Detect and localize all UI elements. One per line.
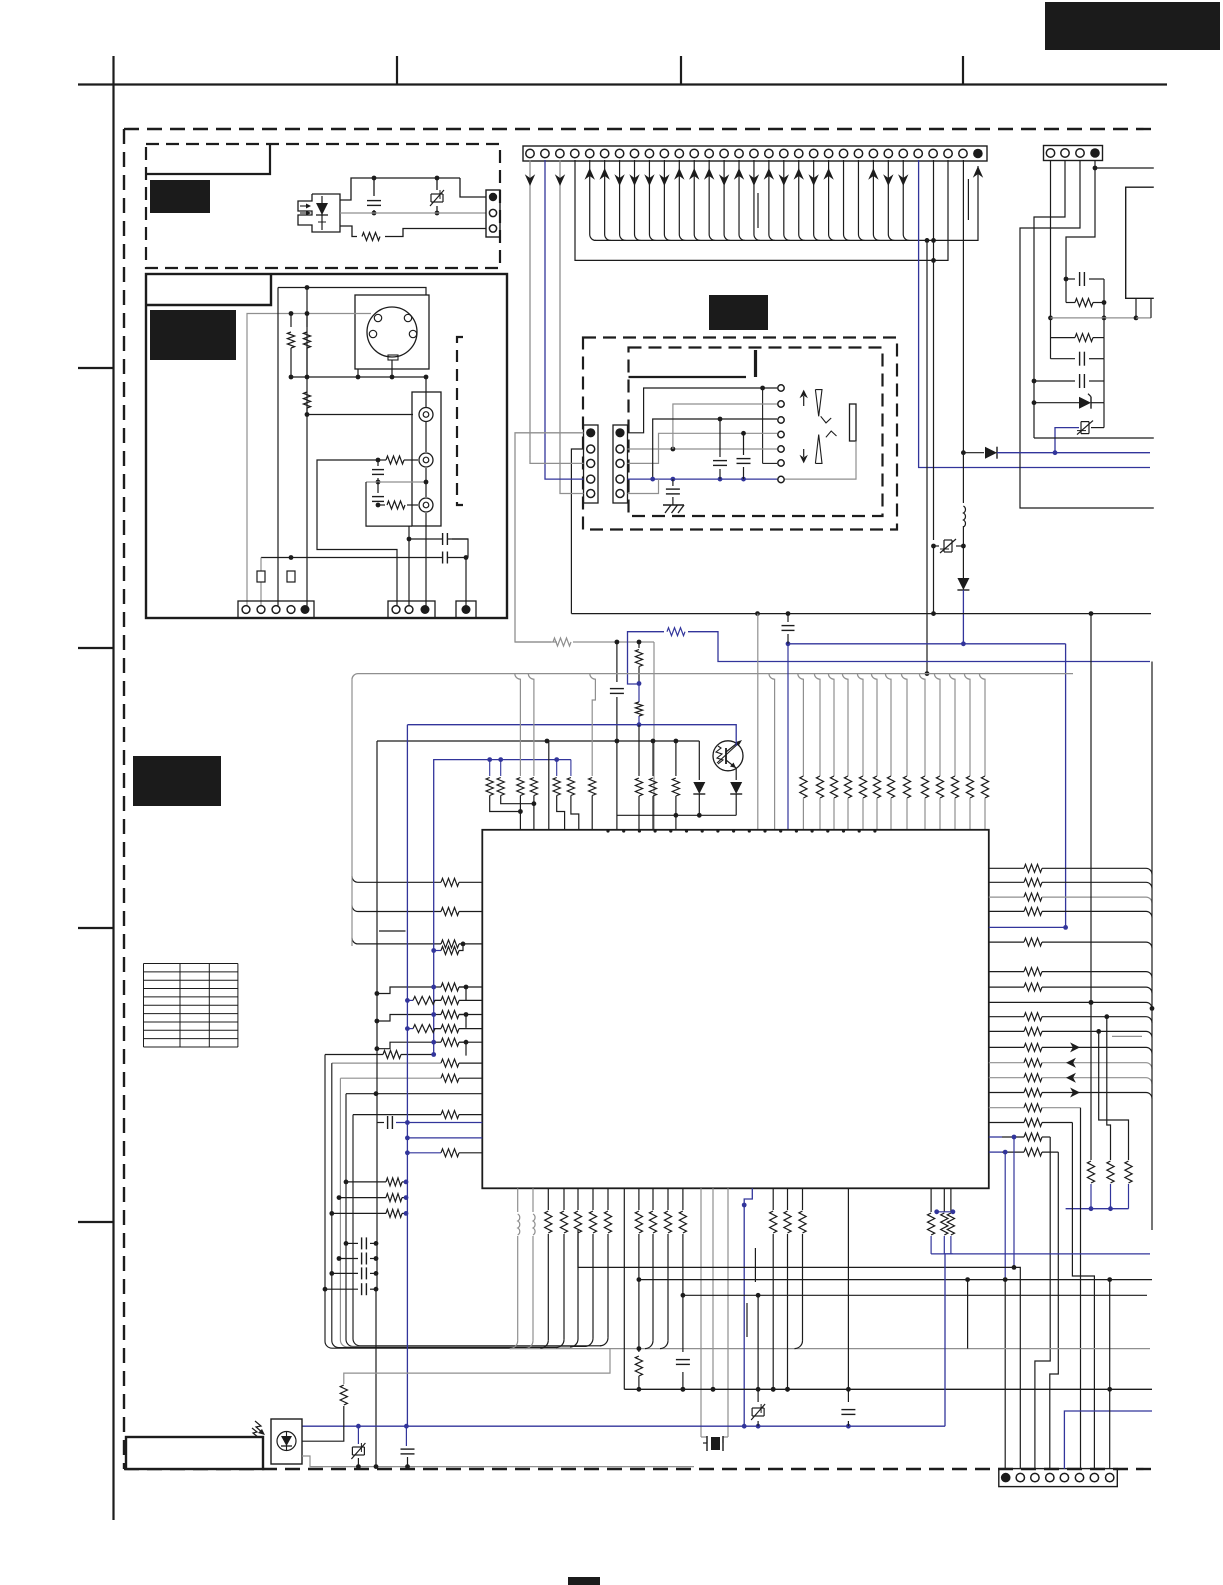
photo-interrupter U1 body (298, 194, 340, 232)
XLR pin 4 (409, 330, 416, 337)
stray stub B (754, 1248, 756, 1282)
IC bottom pin wire x=944.3 (943, 1188, 945, 1212)
cluster row pair 1000.4 (405, 998, 410, 1003)
wire vertical to pin 3 (277, 288, 279, 611)
wires from bus 613 to IC top (757, 614, 759, 830)
arrow down pin 18 (779, 174, 789, 186)
CN5 pin 20 (809, 149, 817, 157)
tap resistor y=1197.6 (337, 1195, 342, 1200)
capacitor C14 (847, 1389, 849, 1402)
CN5 pin 5 (586, 149, 594, 157)
CN9 pin 8 (1106, 1473, 1114, 1481)
label box (redacted) (709, 295, 768, 330)
left pin wire y=1122.5 (377, 1122, 384, 1124)
right pin wire y=1092.5 (989, 1092, 1024, 1094)
headphone unit outer dashed box (583, 338, 897, 530)
blue riser 945 (945, 1254, 1150, 1426)
left pin wire y=1063.1 (332, 1062, 441, 1064)
capacitor C12 (616, 642, 618, 682)
wire CN5 pin 25 to bus (888, 160, 894, 240)
cluster row step 987.0 (377, 987, 434, 994)
wire CN5 pin30 chain: inductor L1 (962, 446, 964, 453)
XLR key slot (388, 355, 398, 360)
wire node to connector pin 1 (460, 178, 486, 197)
coupling capacitor y=1289.2 (323, 1287, 328, 1292)
arrow up pin 5 (585, 168, 595, 180)
arrow down pin 1 (525, 174, 535, 186)
wire U1 middle to connector pin 2 (340, 212, 486, 214)
RCA jack box (412, 392, 441, 526)
node dots on gray wire (289, 311, 294, 316)
resistor R2 (290, 314, 292, 328)
pull-up resistor RA7 (885, 674, 891, 776)
off-page arrow left (1066, 1073, 1076, 1083)
capacitor C4 (442, 533, 444, 545)
wire CN5 pin 27 long (blue) (919, 160, 1150, 468)
blue bus row to page edge (1055, 452, 1150, 454)
CN7 pin 2 (616, 445, 624, 453)
capacitor C1 (372, 176, 377, 181)
wire bus1 drop (926, 240, 928, 673)
headphone inner dashed box (629, 348, 883, 517)
IC bottom pin wire x=593 (592, 1188, 594, 1210)
off-page arrow left (1066, 1058, 1076, 1068)
arrow up pin 13 (704, 168, 714, 180)
label box (redacted) (150, 180, 210, 213)
black bus 1389 (624, 1388, 1152, 1390)
capacitor C9 (1066, 278, 1075, 280)
wire row1002 vertical from bus613 (1090, 614, 1092, 1003)
wire CN5 pin 20 to bus (814, 160, 820, 240)
arrow up pin 15 (734, 168, 744, 180)
frame (78, 83, 1167, 85)
CN9 pin 1 (1001, 1473, 1011, 1483)
arrow down pin 14 (719, 174, 729, 186)
blue drop to bus (962, 590, 964, 644)
arrow down pin 20 (808, 174, 818, 186)
CN9 pin 2 (1016, 1473, 1024, 1481)
CN7 pin 1 (615, 428, 624, 437)
long gray bus 1348 (510, 1348, 1150, 1350)
IC bottom pin wire x=701 (700, 1188, 702, 1437)
CN5 pin 29 (944, 149, 952, 157)
CN5 pin 13 (705, 149, 713, 157)
bundle wire x=340.4 (340, 1078, 571, 1347)
outer dashed border (124, 128, 1153, 130)
wire CN6 pin3 from CN5 pin1 (530, 456, 584, 463)
arrow down pin 3 (555, 174, 565, 186)
IC bottom pin wire x=548.3 (547, 1188, 549, 1210)
CN5 pin 15 (735, 149, 743, 157)
off-page arrow right (1070, 1042, 1080, 1052)
wire 788 to IC (787, 644, 789, 830)
varistor D1 (435, 176, 440, 181)
resistor RF7 from gray bus (590, 674, 596, 776)
left pin wire y=911.5 (352, 906, 441, 912)
row 950 blue link (434, 950, 441, 952)
LED D8 (730, 782, 742, 794)
CN5 pin 1 (526, 149, 534, 157)
connector CN5 31-pin header (523, 146, 987, 161)
jack switch arrow up (803, 396, 805, 406)
blue drop 1014 (1013, 1137, 1015, 1267)
blue vertical 433 (433, 760, 435, 1055)
capacitor C10 (1051, 358, 1076, 360)
right pin wire y=897.1 (989, 896, 1024, 898)
wire contact7 to sleeve (785, 441, 856, 479)
CN5 pin 25 (884, 149, 892, 157)
jack moving contact 2 (826, 431, 837, 437)
capacitor C5 (442, 552, 444, 564)
stray stub A (746, 1303, 748, 1337)
CN5 pin 27 (914, 149, 922, 157)
resistor R7 (1065, 279, 1067, 303)
wire CN5 pin 2 long (blue) (544, 160, 546, 473)
IC bottom pin wire x=713 (712, 1188, 714, 1389)
transistor Q1 (713, 741, 743, 771)
zener D9 (757, 1389, 759, 1402)
CN6 pin 3 (587, 459, 595, 467)
wire riser to row 539 (409, 526, 442, 539)
left pin wire y=943.9 (352, 938, 441, 944)
resistor R4 (303, 392, 310, 408)
CN6 pin 4 (587, 475, 595, 483)
IC bottom pin wire x=682.9 (682, 1188, 684, 1210)
connector CN6 5-pin (584, 425, 599, 503)
right pin wire y=1062.7 (989, 1062, 1024, 1064)
row 1280 long (639, 1279, 1152, 1281)
resistor R12 (IR) (302, 1406, 344, 1441)
CN5 pin 7 (615, 149, 623, 157)
row 1267 to CN9 pin2 (578, 1230, 1020, 1469)
bundle wire x=331.8 (332, 1063, 557, 1348)
wire 377 from row 741 (376, 741, 378, 1289)
wire CN6 pin4 from CN5 pin2 (blue) (545, 473, 584, 479)
blue bus row 643 (788, 643, 1066, 645)
jack switch lever 2 (815, 435, 822, 464)
wire CN5 pin 1 long (gray) (529, 160, 531, 456)
wire CN9 pin8 (1109, 1280, 1111, 1469)
diode D6 (962, 546, 964, 578)
wire CN5 pin 11 to bus (679, 160, 685, 240)
wire U1 top to node (340, 178, 460, 200)
photo-interrupter input arrows (300, 205, 310, 207)
wire CN5 pin 24 to bus (873, 160, 879, 240)
blue wire to CN9 pin5 (1064, 1411, 1152, 1469)
wire CN8 pin4 to RC pair (1066, 168, 1095, 279)
CN9 pin 5 (1060, 1473, 1068, 1481)
gray bus row 674 (352, 674, 1073, 680)
CN5 pin 19 (795, 149, 803, 157)
IC bottom pin wire x=931.1 (930, 1188, 932, 1212)
label box (redacted) top-right (1045, 2, 1220, 50)
wire 758 drop (757, 1295, 759, 1389)
CN5 pin 11 (675, 149, 683, 157)
pull-up resistor RA8 (901, 674, 907, 776)
right pin wire y=1107.7 (989, 1107, 1024, 1109)
hanging resistor RV3 (1096, 1029, 1101, 1034)
coupling capacitor y=1273.4 (329, 1271, 334, 1276)
dashed bracket (457, 337, 463, 505)
blue dots right rows (1012, 1135, 1017, 1140)
CN5 pin 24 (869, 149, 877, 157)
right pin wire y=1002.4 (989, 1001, 1146, 1003)
wire CN5 pin 19 to bus (799, 160, 805, 240)
left pin wire y=1152.8 (407, 1152, 441, 1154)
remote sensor label tab (146, 144, 270, 174)
stray lead stub C (379, 930, 406, 932)
XLR ground stubs (357, 369, 359, 377)
arrow up pin 12 (689, 168, 699, 180)
wire CN5 pin 10 to bus (664, 160, 670, 240)
wire XLR bottom bus (291, 376, 426, 378)
left pin wire y=1042.2 (433, 1041, 441, 1043)
left pin wire y=1000.4 (433, 999, 441, 1001)
CN9 pin 4 (1046, 1473, 1054, 1481)
wire CN5 pin 23 to bus (858, 160, 864, 240)
arrow up pin 31 (973, 166, 983, 178)
wire CN5 pin 6 to bus (605, 160, 611, 240)
left pin wire y=1137.9 (407, 1137, 482, 1139)
wire CN7 pin1 to contact 1 (628, 388, 778, 433)
pull-up resistor RA10 (934, 674, 940, 776)
left pin wire y=1014.5 (433, 1014, 441, 1016)
resistor R1 (362, 233, 380, 241)
off-page arrow right (1070, 1088, 1080, 1098)
wire CN5 pin 14 to bus (724, 160, 730, 240)
capacitor C2 (377, 460, 379, 466)
RCA jack 2 (419, 453, 433, 467)
CN5 pin 18 (780, 149, 788, 157)
blue wire from IC bottom (744, 1188, 752, 1426)
resistor RF3 from gray bus (515, 674, 521, 776)
blue bus 1426 (302, 1425, 945, 1427)
bundle wire x=325 (325, 1055, 541, 1349)
gray wire from bus to IC (arc) (769, 674, 775, 830)
wire row 557 to cap C5 (261, 557, 442, 559)
coupling capacitor y=1258.5 (337, 1256, 342, 1261)
IC U2 main microcontroller (482, 830, 989, 1189)
label box (redacted) (133, 756, 221, 806)
IC bottom pin wire x=728 (727, 1188, 729, 1437)
wire to RCA jack 1 (307, 414, 413, 416)
IC bottom pin wire x=802.5 (802, 1188, 804, 1210)
arrow down pin 8 (629, 174, 639, 186)
pull-up resistor RA2 (814, 674, 820, 776)
XLR pin 3 (369, 330, 376, 337)
ferrite bead FB2 (287, 571, 295, 582)
wire CN8 pin3 long (1020, 161, 1154, 508)
XLR pin 1 (374, 314, 381, 321)
wire drop 1058 to CN9 pin4 (1050, 1152, 1059, 1469)
CN9 pin 3 (1031, 1473, 1039, 1481)
wire CN5 pin 22 to bus (844, 160, 850, 240)
wire CN8 pin4 node (1094, 161, 1096, 168)
IC bottom pin wire x=653 (652, 1188, 654, 1210)
wire CN5 pin 8 to bus (635, 160, 641, 240)
cluster row step 1042.2 (377, 1042, 434, 1049)
wire Q1 collector (735, 740, 737, 746)
wire jack2 loop (317, 460, 397, 610)
blue drop 1005 (1004, 1152, 1006, 1280)
right pin wire y=1122.5 (989, 1122, 1024, 1124)
remote sensor unit dashed box (146, 144, 500, 268)
wire CN5 pin 9 to bus (649, 160, 655, 240)
wire 616 to IC (616, 741, 618, 830)
arrow down pin 16 (749, 174, 759, 186)
CN7 pin 3 (616, 459, 624, 467)
connector CN4 1-pin (456, 601, 476, 618)
CN5 pin 22 (839, 149, 847, 157)
connector CN8 4-pin (1044, 146, 1103, 161)
wire RCA column (425, 377, 427, 407)
CN6 pin 1 (586, 428, 595, 437)
CN5 pin 4 (571, 149, 579, 157)
wire pin2 drop (260, 558, 262, 611)
jack contact 5 (778, 446, 784, 452)
varistor D3 (1080, 422, 1082, 434)
CN5 pin 26 (899, 149, 907, 157)
row 1295 long (683, 1294, 1147, 1296)
pull-up resistor RA11 (949, 674, 955, 776)
wire vertical to pin 5 (306, 288, 308, 611)
right pin wire y=1031.4 (989, 1030, 1024, 1032)
IC bottom pin wire x=517.7 (517, 1188, 519, 1212)
stray lead stub (757, 193, 759, 228)
right pin wire y=1016.7 (989, 1016, 1024, 1018)
jack contact 6 (778, 460, 784, 466)
wire CN6 pin2 down (571, 449, 583, 614)
IC bottom pin wire x=950.9 (950, 1188, 952, 1212)
arrow up pin 19 (794, 168, 804, 180)
photo-diode of U1 (321, 196, 323, 230)
pull-up resistor RA5 (857, 674, 863, 776)
left pin wire y=987.0 (433, 986, 441, 988)
blue link wire (628, 632, 665, 684)
IC bottom pin wire x=533 (532, 1188, 534, 1212)
wire CN5 pin 3 long (gray) (559, 160, 561, 488)
arrow up pin 24 (868, 168, 878, 180)
diode D2 zener (1032, 400, 1037, 405)
arrow down pin 9 (644, 174, 654, 186)
headphone label tab (629, 376, 747, 378)
diode D4 on blue row (961, 450, 966, 455)
capacitor C15 (405, 1426, 407, 1446)
LED D7 (698, 741, 700, 780)
next-stage block outline (1126, 187, 1154, 298)
resistor R5 (404, 459, 418, 461)
IC bottom pin wire x=787.5 (787, 1188, 789, 1210)
right pin wire y=911.4 (989, 910, 1024, 912)
jack sleeve (850, 404, 857, 441)
IC bottom pin wire x=624.3 (623, 1188, 625, 1389)
wire contact3 branch (653, 419, 777, 479)
gray wire to IC block stub (1051, 317, 1137, 319)
wire CN7 pin5 riser (628, 479, 659, 493)
wire CN5 pin 15 to bus (739, 160, 745, 240)
pull-up resistor RA13 (979, 674, 985, 776)
jack contact 4 (778, 431, 784, 437)
right pin wire y=942.1 (989, 941, 1024, 943)
pull-up resistor RA4 (842, 674, 848, 776)
jack moving contact 1 (821, 416, 832, 423)
right pin wire y=987.1 (989, 986, 1024, 988)
right vertical bus (1151, 662, 1153, 1231)
IR ground row (302, 1456, 694, 1467)
gray tail row 1031 (1112, 1035, 1142, 1037)
wire 967 drop (967, 1280, 969, 1349)
gray drop 654 (653, 642, 655, 830)
RCA jack 3 (419, 498, 433, 512)
capacitor C3 (377, 482, 379, 493)
blue vertical 406 (406, 725, 408, 1426)
wire CN5 pin 26 to bus (903, 160, 909, 240)
CN5 pin 28 (929, 149, 937, 157)
wire pin28 rail lower (933, 546, 935, 614)
resistor R3 (306, 314, 308, 328)
right pin wire y=868.3 (989, 867, 1024, 869)
hanging resistor RV2 (1104, 1014, 1109, 1019)
zener D10 (357, 1426, 359, 1444)
CN5 pin 31 (973, 149, 983, 159)
wire CN5 pin 28 long (933, 160, 935, 540)
left pin wire y=882.3 (352, 876, 441, 882)
jack switch arrow down (803, 449, 805, 457)
label box (redacted) (150, 310, 236, 360)
arrow down pin 26 (898, 174, 908, 186)
wire CN5 pin 12 to bus (694, 160, 700, 240)
input unit label tab (146, 274, 271, 305)
CN6 pin 2 (587, 445, 595, 453)
blue feeder row 759 (433, 759, 571, 761)
row 1094 wire (346, 1093, 482, 1095)
wire contact1 bridge (762, 388, 764, 463)
wire CN7 pin2 to contact 5 (628, 448, 778, 450)
input unit box (146, 274, 507, 618)
wire CN5 pin 21 to bus (829, 160, 835, 240)
blue wire from varistor (1055, 428, 1079, 453)
wire drop 1050 to CN9 pin3 (1035, 1137, 1050, 1469)
wire cap C4 right leg (452, 539, 468, 558)
wire CN5 pin 16 to bus (754, 160, 760, 240)
IR receiver box (271, 1419, 302, 1464)
wire CN6 pin5 from CN5 pin3 (560, 488, 584, 494)
connector CN3 3-pin (388, 601, 435, 618)
blue collector bus (1066, 1208, 1129, 1210)
jack contact 1 (778, 385, 784, 391)
CN5 pin 23 (854, 149, 862, 157)
right pin wire y=927.4 (989, 926, 1066, 928)
ground (663, 504, 684, 506)
IC bottom pin wire x=608 (607, 1188, 609, 1210)
CN7 pin 4 (616, 475, 624, 483)
wire Q1 emitter to diode (735, 768, 737, 780)
IR input arrows (252, 1421, 263, 1438)
next-stage block stub box (1135, 298, 1137, 318)
wire 788 drop (787, 614, 789, 644)
resistor RF6 (570, 760, 572, 776)
arrow down pin 7 (614, 174, 624, 186)
CN5 pin 3 (556, 149, 564, 157)
wire to 3-pin pin2 (408, 539, 410, 610)
capacitor C6 (719, 419, 721, 457)
CN5 pin 12 (690, 149, 698, 157)
arrow down pin 25 (883, 174, 893, 186)
XLR connector J1 body (355, 295, 429, 369)
RCA jack 1 (419, 408, 433, 422)
arrow up pin 21 (823, 168, 833, 180)
IC bottom pin wire x=668 (667, 1188, 669, 1210)
